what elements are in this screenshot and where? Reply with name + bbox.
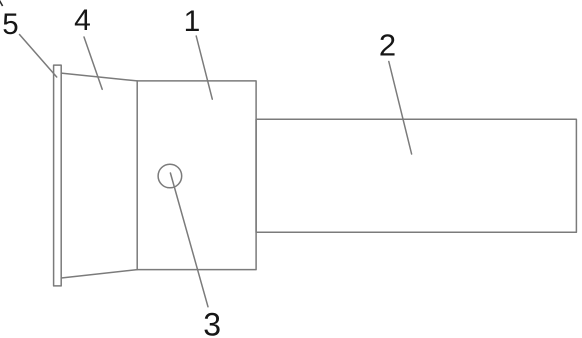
scan artifact top-left corner (0, 1, 3, 7)
leader line 5 (20, 35, 57, 78)
hole 3 (158, 164, 182, 188)
tapered hub 4 (61, 73, 137, 278)
leader line 4 (84, 37, 102, 89)
svg-text:4: 4 (74, 4, 91, 37)
flange plate 5 (54, 65, 62, 286)
leader line 2 (389, 62, 412, 155)
body block 1 (137, 81, 256, 270)
svg-text:3: 3 (203, 306, 221, 338)
svg-text:1: 1 (184, 5, 201, 38)
svg-text:2: 2 (379, 27, 396, 62)
leader line 3 (170, 173, 208, 307)
leader line 1 (196, 36, 212, 99)
svg-text:5: 5 (2, 8, 18, 41)
shaft 2 (256, 119, 576, 232)
